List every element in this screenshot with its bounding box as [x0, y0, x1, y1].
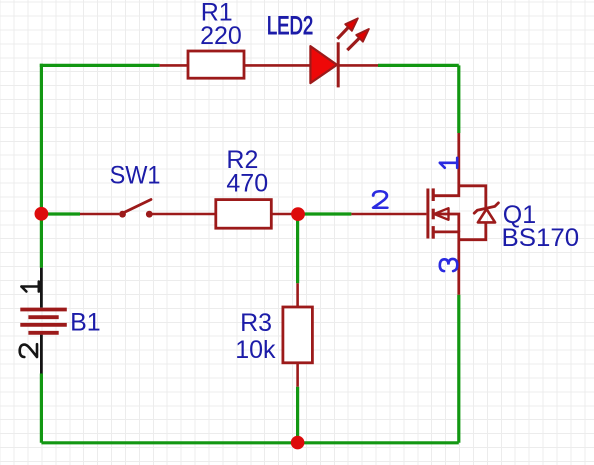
wire bottom horizontal (green): [41, 441, 458, 444]
LED2 arrow 1 head: [345, 18, 358, 31]
wire top horizontal left (green): [41, 64, 159, 66]
switch SW1 blade: [124, 200, 151, 213]
resistor R3 pin bottom: [296, 363, 299, 387]
svg-text:R3: R3: [240, 309, 272, 337]
wire right vertical top (green): [457, 65, 460, 133]
switch SW1 contact right: [146, 211, 153, 218]
LED2 triangle: [310, 46, 337, 83]
battery B1 plate long top: [20, 308, 67, 312]
wire middle junction to gate (green): [298, 212, 351, 215]
battery pin number 1 (rotated, black): [21, 282, 38, 292]
wire R3 bottom (green): [296, 387, 299, 443]
svg-text:B1: B1: [70, 309, 101, 337]
LED2 arrow 1 shaft: [337, 27, 348, 38]
pin number 3 source (rotated): [440, 259, 458, 271]
wire R3 top (green): [296, 214, 299, 283]
battery B1 pin 1 wire (black): [40, 268, 43, 308]
switch SW1 pin wire left: [80, 213, 119, 216]
pin number 2 gate: [373, 191, 387, 207]
svg-text:220: 220: [200, 22, 242, 50]
pin number 1 drain (rotated): [440, 158, 457, 168]
transistor Q1 channel bar top: [432, 188, 435, 201]
junction middle: [291, 207, 305, 221]
svg-text:470: 470: [226, 170, 268, 198]
junction bottom: [291, 436, 305, 450]
transistor Q1 body diode branch bottom: [459, 222, 486, 239]
transistor Q1 source arrow line: [433, 214, 459, 232]
resistor R1 pin right: [244, 64, 311, 67]
svg-text:SW1: SW1: [110, 162, 161, 190]
resistor R1 body: [188, 51, 244, 78]
svg-text:LED2: LED2: [267, 11, 313, 39]
resistor R2 body: [216, 200, 271, 229]
switch SW1 contact left: [119, 211, 126, 218]
battery pin number 2 (rotated, black): [20, 344, 37, 357]
battery B1 plate short bottom: [28, 331, 58, 335]
wire top horizontal right (green): [378, 64, 459, 67]
transistor Q1 gate bar: [426, 189, 429, 239]
transistor Q1 channel bar bottom: [432, 226, 435, 239]
transistor Q1 arrow head: [434, 208, 448, 220]
LED2 cathode bar: [337, 42, 340, 87]
battery B1 plate long: [20, 323, 67, 327]
battery B1 plate short: [28, 315, 58, 319]
resistor R3 pin top: [296, 283, 299, 307]
resistor R1 pin left: [160, 64, 188, 67]
resistor R3 body: [283, 307, 313, 363]
junction left: [35, 207, 49, 221]
svg-text:BS170: BS170: [502, 224, 580, 252]
switch SW1 pin wire right: [153, 213, 216, 216]
svg-text:10k: 10k: [235, 336, 276, 364]
transistor Q1 body diode branch top: [459, 186, 486, 208]
transistor Q1 body diode zener bar: [474, 203, 498, 213]
transistor Q1 drain connection: [433, 133, 459, 196]
wire left vertical upper (green): [40, 64, 43, 268]
transistor Q1 source bottom connection: [433, 232, 459, 295]
transistor Q1 gate pin wire: [351, 213, 426, 216]
transistor Q1 channel bar middle: [432, 209, 435, 220]
LED2 arrow 2 shaft: [347, 38, 359, 50]
LED2 diode wire right: [339, 64, 379, 67]
LED2 arrow 2 head: [356, 29, 369, 42]
transistor Q1 body diode triangle: [478, 209, 495, 222]
wire right vertical bottom (green): [457, 295, 460, 443]
wire left vertical lower (green): [40, 374, 43, 443]
wire middle from left junction to switch (green): [41, 212, 80, 215]
battery B1 pin 2 wire (black): [40, 335, 43, 374]
resistor R2 pin right: [271, 213, 292, 216]
